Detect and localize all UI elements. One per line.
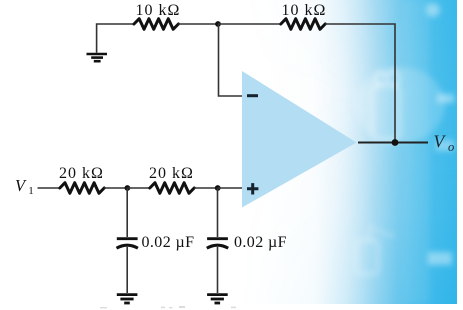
wire: node B to 20k #2 [127, 187, 150, 189]
wire: capacitor C2 to ground [217, 247, 219, 293]
op-amp inverting input (−) [247, 94, 258, 97]
resistor 10 kΩ (left) [134, 19, 178, 30]
resistor 10 kΩ (feedback) [281, 19, 325, 30]
wire: feedback tap node A down to inverting input [219, 24, 243, 96]
capacitor C2 [207, 239, 228, 249]
wire: node A to 10k feedback [218, 23, 280, 25]
wire: top ground up and right to resistor [97, 24, 134, 53]
svg-text:0.02 µF: 0.02 µF [234, 234, 287, 251]
svg-text:10 kΩ: 10 kΩ [136, 2, 181, 19]
ground (top left) [87, 54, 108, 61]
output node (junction dot) [392, 139, 399, 146]
svg-text:V: V [15, 176, 27, 195]
node B (junction dot) [125, 185, 131, 191]
wire: V1 to 20k #1 [38, 187, 60, 189]
resistor 20 kΩ #1 [60, 183, 104, 194]
node A (junction dot) [215, 21, 221, 27]
svg-text:1: 1 [28, 185, 34, 197]
svg-text:20 kΩ: 20 kΩ [149, 165, 194, 182]
cropped caption fragments at bottom edge [100, 306, 236, 308]
ground (C2) [207, 295, 228, 303]
wire: node C to + input [218, 187, 242, 189]
node C (junction dot) [215, 185, 221, 191]
wire: 20k #1 to node B [104, 187, 127, 189]
wire: op-amp output [358, 142, 428, 144]
svg-text:0.02 µF: 0.02 µF [142, 234, 195, 251]
op-amp U1 [242, 71, 357, 208]
wire: node C down to capacitor C2 [217, 188, 219, 237]
wire: 20k #2 to node C [194, 187, 218, 189]
ground (C1) [117, 295, 138, 303]
svg-text:10 kΩ: 10 kΩ [282, 2, 327, 19]
svg-text:o: o [448, 140, 454, 154]
op-amp noninverting input (+) [247, 183, 258, 194]
resistor 20 kΩ #2 [150, 183, 194, 194]
wire: capacitor C1 to ground [126, 247, 128, 293]
svg-text:20 kΩ: 20 kΩ [59, 165, 104, 182]
wire: 10k feedback right and down to output node [325, 24, 395, 143]
wire: node B down to capacitor C1 [126, 188, 128, 237]
capacitor C1 [117, 239, 138, 249]
wire: 10k left to node A [178, 23, 218, 25]
